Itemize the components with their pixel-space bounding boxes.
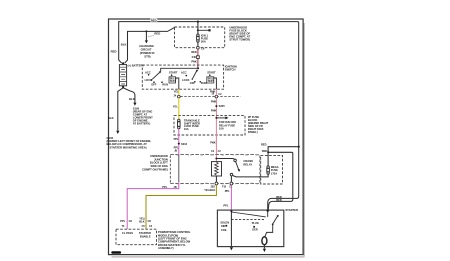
svg-text:PPL: PPL	[174, 137, 179, 141]
junction block wavy box	[170, 154, 260, 183]
ground arrow left	[230, 247, 233, 250]
starter box	[217, 210, 283, 247]
node S terminal	[230, 210, 232, 212]
connector bubble C6	[197, 46, 200, 49]
svg-text:175A: 175A	[271, 171, 277, 175]
wire mega fuse to relay contact	[233, 174, 268, 177]
svg-text:OFF: OFF	[151, 83, 157, 87]
svg-text:PNK: PNK	[210, 141, 216, 145]
ground G100 text	[107, 136, 152, 150]
relay contact common terminal	[234, 159, 237, 162]
fuse transaxle shift interlock	[178, 116, 180, 120]
svg-text:TEST: TEST	[208, 80, 215, 83]
deck1 bulb test box	[169, 77, 176, 83]
wire YEL/BLK relay to PCM	[146, 185, 216, 229]
wire YEL connector to IP block	[178, 98, 180, 116]
svg-text:S205: S205	[219, 104, 226, 108]
ignition switch box	[142, 65, 223, 89]
label RED leader to charging wire	[145, 32, 160, 37]
svg-text:COIL: COIL	[221, 229, 227, 232]
plunger dashed line	[231, 218, 265, 220]
svg-text:RUN: RUN	[162, 83, 168, 87]
relay contact arm	[236, 162, 239, 170]
svg-text:C6: C6	[129, 219, 133, 223]
svg-text:RUN: RUN	[201, 81, 207, 85]
svg-text:OID: OID	[221, 225, 226, 228]
svg-text:RED: RED	[191, 50, 197, 54]
svg-text:BLK: BLK	[108, 116, 114, 120]
wire relay coil to box bottom	[215, 176, 217, 182]
svg-text:PPL: PPL	[225, 189, 230, 193]
wire PNK in IP block with arrow	[215, 116, 217, 135]
solenoid text	[220, 221, 229, 231]
deck1 contacts	[148, 74, 150, 76]
svg-text:RED: RED	[111, 50, 117, 54]
wire PNK connector to IP block	[215, 89, 217, 115]
svg-text:JB: JB	[174, 150, 177, 153]
deck2 labels	[181, 71, 216, 86]
connector dashed line C2	[180, 96, 240, 98]
svg-text:UNDERHOOD: UNDERHOOD	[150, 154, 168, 158]
svg-text:F10: F10	[222, 186, 227, 189]
underhood fuse block box	[175, 27, 225, 48]
svg-text:30A: 30A	[201, 40, 206, 44]
svg-text:SOLEN: SOLEN	[220, 221, 229, 224]
wire fuse drop	[197, 22, 199, 34]
deck1 labels	[145, 71, 178, 87]
svg-text:95I03: 95I03	[112, 252, 118, 254]
svg-text:RED: RED	[262, 149, 268, 153]
inline ref square	[197, 56, 200, 59]
svg-text:TEST: TEST	[170, 80, 177, 83]
svg-text:ACC: ACC	[145, 71, 151, 75]
svg-text:(+) BATTERY: (+) BATTERY	[128, 64, 145, 68]
IP fuse block text	[248, 115, 269, 134]
border frame	[109, 19, 304, 255]
wire into mega fuse	[267, 152, 269, 166]
svg-text:CL PASS: CL PASS	[122, 231, 133, 235]
svg-text:BLK: BLK	[121, 42, 127, 46]
wire PNK to junction block	[215, 135, 217, 155]
svg-text:LOCK: LOCK	[145, 78, 152, 82]
wire B to contact	[267, 212, 269, 217]
wire motor to ground	[263, 245, 265, 249]
crank relay	[212, 155, 254, 183]
splice tag S234	[178, 143, 180, 145]
svg-text:BLK: BLK	[129, 97, 135, 101]
svg-text:CIRCUIT: CIRCUIT	[141, 48, 152, 52]
node B terminal	[267, 210, 269, 212]
svg-text:ASSEMBLY): ASSEMBLY)	[158, 246, 174, 250]
svg-text:PPL: PPL	[223, 204, 228, 208]
starter internals	[220, 210, 279, 253]
underhood junction block text	[142, 154, 168, 172]
ground arrow right	[263, 249, 266, 252]
deck1 wiper arm	[152, 72, 160, 79]
svg-text:JB: JB	[174, 186, 177, 189]
wire deck2 to PNK exit	[214, 78, 217, 89]
svg-text:ACC: ACC	[181, 71, 187, 75]
svg-text:RELAY: RELAY	[243, 162, 252, 166]
deck2 bulb test box	[207, 77, 214, 83]
svg-text:YEL/BLK: YEL/BLK	[204, 188, 215, 192]
wire battery negative right to S160	[123, 88, 135, 103]
label ignition switch	[225, 65, 237, 72]
svg-text:CHARGING: CHARGING	[139, 44, 154, 48]
wire contact to motor	[265, 224, 273, 236]
splice S206	[215, 105, 217, 107]
wire PPL through junction block	[178, 155, 180, 183]
label crank relay	[243, 159, 253, 166]
svg-text:PANEL): PANEL)	[248, 130, 258, 134]
starter contact arm	[272, 223, 274, 225]
svg-text:C6: C6	[201, 46, 205, 50]
connector bubble yellow	[177, 95, 180, 98]
svg-text:STARTER: STARTER	[285, 208, 298, 212]
svg-text:STR): STR)	[144, 55, 150, 59]
deck2 contacts	[186, 75, 188, 77]
deck2 wiper arm	[193, 71, 197, 79]
svg-text:ENABLE: ENABLE	[140, 234, 151, 238]
wire solenoid coil to ground	[230, 212, 232, 247]
svg-text:SIDE OF ENG: SIDE OF ENG	[150, 164, 167, 168]
svg-text:GER: GER	[252, 229, 258, 232]
svg-text:SWITCH: SWITCH	[225, 68, 236, 72]
svg-text:C8: C8	[148, 219, 152, 223]
svg-text:PNK: PNK	[211, 109, 217, 113]
wire BLK battery to fuse block rail	[128, 27, 176, 60]
wire fuse to connector bubble	[197, 42, 199, 46]
svg-text:PNK: PNK	[191, 59, 197, 63]
wire feed to deck 1	[161, 68, 198, 71]
fuse label	[201, 34, 209, 44]
svg-text:PPL: PPL	[120, 219, 125, 223]
battery B1	[119, 60, 128, 88]
label RED on rail	[150, 18, 157, 22]
svg-text:COMPT ON FRAME): COMPT ON FRAME)	[142, 168, 168, 172]
wire PPL relay to starter S	[230, 185, 232, 210]
PCM description text	[158, 230, 191, 250]
mega fuse branch from rail	[298, 146, 300, 148]
wire PPL fuse out to junction block	[178, 129, 180, 155]
svg-text:BLK: BLK	[139, 219, 144, 223]
fuse bus bar	[197, 29, 199, 31]
svg-text:YEL: YEL	[173, 104, 178, 108]
svg-text:10A: 10A	[184, 127, 189, 131]
starter motor M	[262, 237, 267, 245]
svg-text:PLUN: PLUN	[252, 222, 259, 225]
wire PNK to relay coil	[215, 155, 217, 162]
wire battery negative left to G100	[118, 88, 123, 131]
wire solenoid link	[231, 212, 265, 217]
svg-text:AT BATTERY): AT BATTERY)	[133, 121, 151, 125]
wire RED battery rail to starter B	[119, 22, 299, 210]
splice S160 text	[133, 106, 153, 125]
svg-text:240: 240	[192, 55, 197, 59]
svg-text:PNK: PNK	[211, 100, 217, 104]
charging circuit text	[139, 44, 154, 59]
PCM box	[116, 229, 157, 245]
wire YEL switch to connector	[178, 89, 180, 95]
svg-text:OFF: OFF	[190, 81, 196, 85]
relay contact output terminal	[230, 173, 233, 176]
svg-text:PNK: PNK	[210, 89, 216, 93]
svg-text:RED: RED	[154, 32, 160, 36]
mega fuse text	[271, 165, 279, 175]
svg-text:STARTER MOUNTING AREA): STARTER MOUNTING AREA)	[110, 145, 147, 149]
svg-text:STRUT TOWER): STRUT TOWER)	[229, 37, 250, 41]
fuse IGN 1 30A	[197, 34, 200, 42]
svg-text:START: START	[207, 71, 216, 75]
svg-text:(POWER DI: (POWER DI	[140, 51, 155, 55]
svg-text:RED: RED	[151, 18, 157, 22]
svg-text:PPL: PPL	[162, 185, 167, 189]
svg-text:YEL: YEL	[174, 89, 179, 93]
IGN crank relay fuse text	[219, 120, 236, 130]
IP junction block fuse box	[174, 116, 245, 135]
connector bubbles on junction block bottom	[215, 182, 218, 185]
svg-text:JB2: JB2	[210, 186, 215, 189]
plunger text	[252, 222, 259, 231]
node junction charging branch	[145, 30, 147, 32]
svg-text:LOCK: LOCK	[182, 78, 189, 82]
mega fuse box	[261, 155, 283, 184]
svg-text:S234: S234	[181, 142, 188, 146]
page shadow	[112, 23, 305, 257]
node feed junction	[197, 67, 199, 69]
ignition switch internals	[145, 67, 217, 89]
svg-text:10A: 10A	[219, 127, 224, 131]
relay coil box	[212, 162, 222, 176]
underhood fuse block text	[229, 25, 250, 41]
wire PPL junction block to PCM	[127, 182, 179, 229]
wire relay output to box bottom	[230, 176, 232, 182]
figure id chip	[111, 251, 121, 254]
mega fuse symbol	[267, 166, 270, 174]
wire PNK fuse to ignition switch	[197, 49, 199, 67]
svg-text:RED: RED	[261, 143, 267, 147]
svg-text:BLOCK (LEFT: BLOCK (LEFT	[150, 161, 168, 165]
svg-text:START: START	[169, 71, 178, 75]
svg-text:RED: RED	[276, 198, 282, 202]
wire deck1 to YEL exit	[176, 78, 179, 89]
wire charging circuit branch	[145, 31, 147, 40]
svg-text:JUNCTION: JUNCTION	[154, 157, 168, 161]
node junction rail/fuse drop	[197, 21, 199, 23]
connector bubble pink	[215, 95, 218, 98]
